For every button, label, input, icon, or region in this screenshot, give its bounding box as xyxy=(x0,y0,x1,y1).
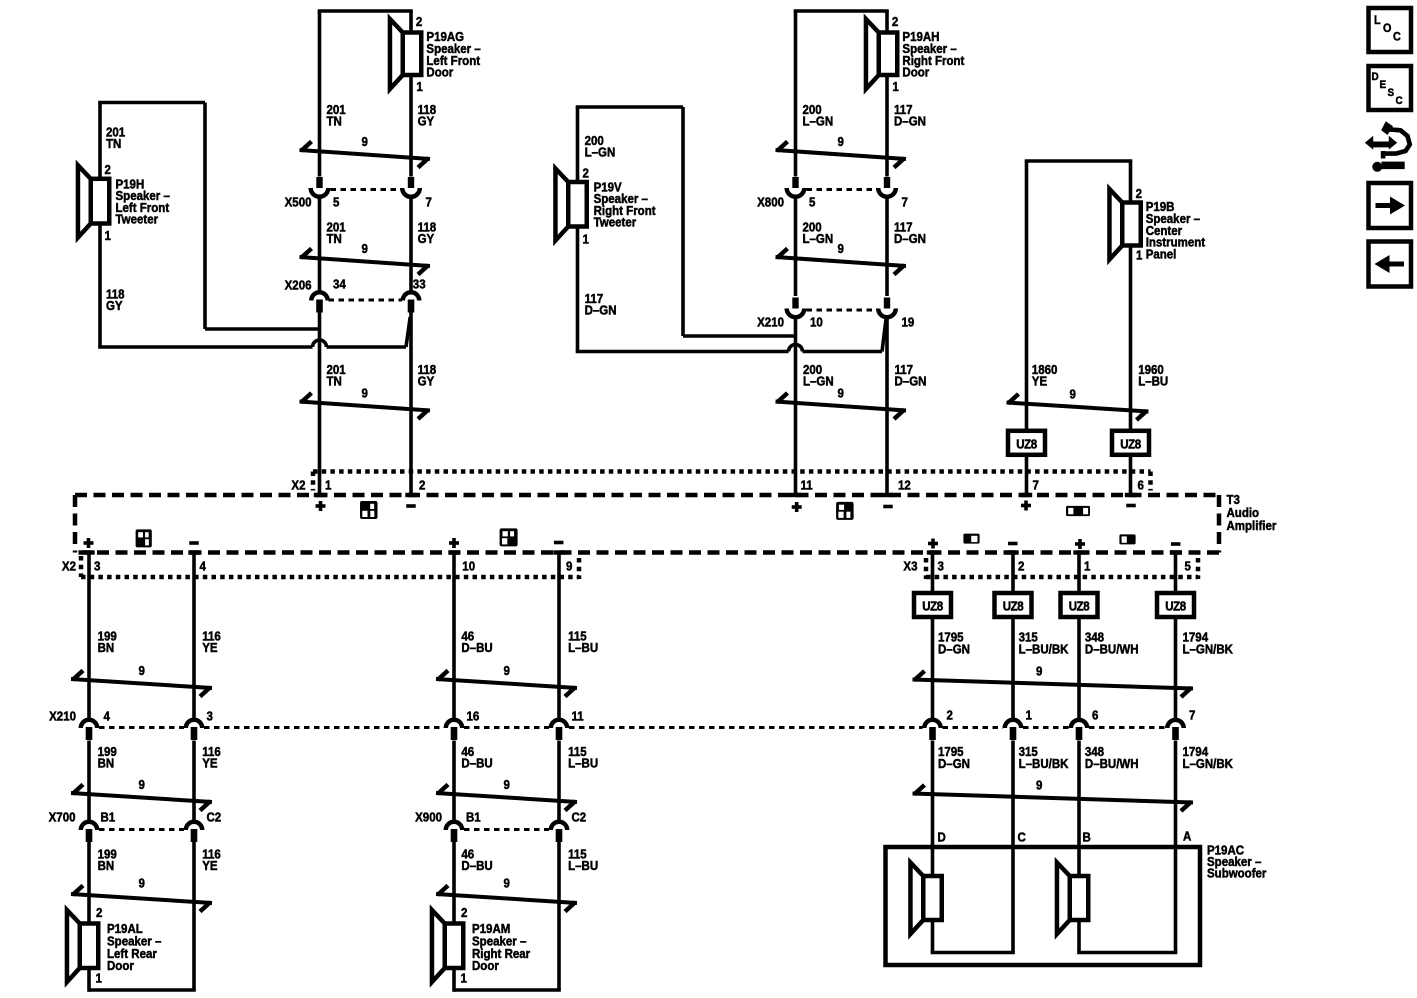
svg-text:9: 9 xyxy=(838,134,845,149)
svg-text:GY: GY xyxy=(418,374,435,389)
svg-text:L–GN: L–GN xyxy=(803,114,834,129)
svg-text:UZ8: UZ8 xyxy=(1120,437,1141,452)
svg-text:B1: B1 xyxy=(466,810,481,825)
svg-text:X210: X210 xyxy=(757,315,784,330)
svg-text:L–GN: L–GN xyxy=(803,374,834,389)
svg-text:1: 1 xyxy=(1084,559,1091,574)
svg-text:L–BU: L–BU xyxy=(568,640,598,655)
svg-text:9: 9 xyxy=(1036,778,1043,793)
svg-text:D–GN: D–GN xyxy=(938,642,970,657)
svg-text:S: S xyxy=(1388,88,1395,100)
svg-text:2: 2 xyxy=(1018,559,1025,574)
svg-text:12: 12 xyxy=(898,478,911,493)
svg-text:6: 6 xyxy=(1138,478,1145,493)
svg-text:X206: X206 xyxy=(285,278,312,293)
svg-text:C2: C2 xyxy=(206,810,221,825)
svg-text:9: 9 xyxy=(1069,387,1076,402)
svg-text:Subwoofer: Subwoofer xyxy=(1207,866,1267,881)
svg-text:D: D xyxy=(1372,72,1380,84)
svg-text:D–BU: D–BU xyxy=(461,640,493,655)
svg-text:UZ8: UZ8 xyxy=(1165,599,1186,614)
svg-text:9: 9 xyxy=(139,777,146,792)
svg-text:1: 1 xyxy=(104,228,111,243)
svg-text:1: 1 xyxy=(461,971,468,986)
svg-text:3: 3 xyxy=(938,559,945,574)
svg-text:D–BU/WH: D–BU/WH xyxy=(1085,642,1139,657)
svg-text:X900: X900 xyxy=(415,810,442,825)
svg-text:TN: TN xyxy=(327,374,342,389)
svg-text:D–GN: D–GN xyxy=(894,114,926,129)
svg-text:Tweeter: Tweeter xyxy=(115,212,158,227)
svg-text:Door: Door xyxy=(902,65,929,80)
svg-text:D–BU/WH: D–BU/WH xyxy=(1085,756,1139,771)
svg-text:Panel: Panel xyxy=(1146,247,1177,262)
svg-text:UZ8: UZ8 xyxy=(1069,599,1090,614)
svg-text:Door: Door xyxy=(426,65,453,80)
svg-text:1: 1 xyxy=(95,971,102,986)
svg-text:BN: BN xyxy=(98,858,115,873)
svg-text:11: 11 xyxy=(572,709,584,724)
svg-text:1: 1 xyxy=(325,478,332,493)
svg-text:L–GN: L–GN xyxy=(803,231,834,246)
svg-text:2: 2 xyxy=(416,14,423,29)
svg-text:1: 1 xyxy=(416,79,423,94)
svg-text:6: 6 xyxy=(1092,708,1099,723)
svg-text:C2: C2 xyxy=(572,810,587,825)
svg-text:YE: YE xyxy=(202,640,217,655)
svg-text:L–GN/BK: L–GN/BK xyxy=(1183,756,1234,771)
svg-text:2: 2 xyxy=(892,14,899,29)
svg-text:L–BU/BK: L–BU/BK xyxy=(1019,756,1069,771)
svg-text:9: 9 xyxy=(503,876,510,891)
svg-text:3: 3 xyxy=(94,559,101,574)
svg-text:Tweeter: Tweeter xyxy=(594,215,637,230)
svg-text:2: 2 xyxy=(1136,186,1143,201)
svg-text:GY: GY xyxy=(418,231,435,246)
svg-text:9: 9 xyxy=(838,386,845,401)
svg-text:1: 1 xyxy=(1025,708,1032,723)
svg-text:33: 33 xyxy=(413,277,426,292)
svg-text:BN: BN xyxy=(98,756,115,771)
svg-text:7: 7 xyxy=(902,195,909,210)
svg-text:B1: B1 xyxy=(101,810,116,825)
svg-text:7: 7 xyxy=(426,195,433,210)
svg-text:YE: YE xyxy=(1032,374,1047,389)
svg-text:X210: X210 xyxy=(49,709,76,724)
svg-text:7: 7 xyxy=(1189,708,1196,723)
svg-text:9: 9 xyxy=(838,241,845,256)
svg-text:L–GN: L–GN xyxy=(585,145,616,160)
svg-text:TN: TN xyxy=(106,136,121,151)
svg-text:X2: X2 xyxy=(291,478,305,493)
svg-text:Amplifier: Amplifier xyxy=(1227,518,1277,533)
svg-text:L–BU: L–BU xyxy=(568,858,598,873)
svg-text:L–BU/BK: L–BU/BK xyxy=(1019,642,1069,657)
svg-text:D: D xyxy=(938,830,947,845)
svg-text:9: 9 xyxy=(362,386,369,401)
svg-text:C: C xyxy=(1393,31,1401,44)
svg-text:X700: X700 xyxy=(49,810,76,825)
svg-text:7: 7 xyxy=(1032,478,1039,493)
svg-text:X2: X2 xyxy=(62,559,76,574)
svg-text:1: 1 xyxy=(1136,248,1143,263)
svg-text:34: 34 xyxy=(333,277,346,292)
svg-text:L: L xyxy=(1374,15,1381,28)
svg-text:D–BU: D–BU xyxy=(461,756,493,771)
svg-text:2: 2 xyxy=(582,166,589,181)
svg-text:2: 2 xyxy=(96,905,103,920)
svg-text:5: 5 xyxy=(809,195,816,210)
svg-text:GY: GY xyxy=(106,298,123,313)
svg-text:3: 3 xyxy=(206,709,213,724)
svg-text:9: 9 xyxy=(139,663,146,678)
svg-text:O: O xyxy=(1383,23,1392,36)
svg-text:9: 9 xyxy=(362,241,369,256)
svg-text:2: 2 xyxy=(947,708,954,723)
svg-text:4: 4 xyxy=(200,559,207,574)
svg-text:D–GN: D–GN xyxy=(894,231,926,246)
svg-text:BN: BN xyxy=(98,640,115,655)
svg-text:Door: Door xyxy=(472,959,499,974)
svg-text:GY: GY xyxy=(418,114,435,129)
svg-text:1: 1 xyxy=(892,79,899,94)
svg-text:9: 9 xyxy=(566,559,573,574)
svg-text:2: 2 xyxy=(419,478,426,493)
svg-text:A: A xyxy=(1183,829,1192,844)
svg-text:D–GN: D–GN xyxy=(938,756,970,771)
svg-text:C: C xyxy=(1018,830,1027,845)
svg-text:X3: X3 xyxy=(903,559,917,574)
svg-text:X800: X800 xyxy=(757,195,784,210)
svg-text:9: 9 xyxy=(362,134,369,149)
svg-text:L–GN/BK: L–GN/BK xyxy=(1183,642,1234,657)
svg-text:1: 1 xyxy=(582,232,589,247)
svg-text:9: 9 xyxy=(503,663,510,678)
svg-text:UZ8: UZ8 xyxy=(1016,437,1037,452)
svg-text:4: 4 xyxy=(104,709,111,724)
svg-text:Door: Door xyxy=(107,959,134,974)
svg-text:10: 10 xyxy=(810,315,823,330)
svg-text:19: 19 xyxy=(902,315,915,330)
svg-text:9: 9 xyxy=(139,876,146,891)
svg-text:C: C xyxy=(1396,96,1404,108)
svg-text:L–BU: L–BU xyxy=(1138,374,1168,389)
svg-text:16: 16 xyxy=(466,709,479,724)
svg-text:YE: YE xyxy=(202,756,217,771)
svg-text:D–GN: D–GN xyxy=(895,374,927,389)
svg-text:X500: X500 xyxy=(285,195,312,210)
svg-text:UZ8: UZ8 xyxy=(922,599,943,614)
svg-text:YE: YE xyxy=(202,858,217,873)
svg-text:5: 5 xyxy=(1184,559,1191,574)
svg-text:UZ8: UZ8 xyxy=(1003,599,1024,614)
svg-text:2: 2 xyxy=(104,162,111,177)
svg-text:D–GN: D–GN xyxy=(585,303,617,318)
svg-text:TN: TN xyxy=(327,114,342,129)
svg-text:B: B xyxy=(1083,830,1092,845)
svg-text:E: E xyxy=(1380,80,1387,92)
svg-text:TN: TN xyxy=(327,231,342,246)
svg-text:9: 9 xyxy=(503,777,510,792)
svg-text:L–BU: L–BU xyxy=(568,756,598,771)
svg-text:D–BU: D–BU xyxy=(461,858,493,873)
svg-text:2: 2 xyxy=(461,905,468,920)
svg-text:10: 10 xyxy=(462,559,475,574)
svg-text:9: 9 xyxy=(1036,664,1043,679)
svg-text:5: 5 xyxy=(333,195,340,210)
svg-text:11: 11 xyxy=(800,478,812,493)
